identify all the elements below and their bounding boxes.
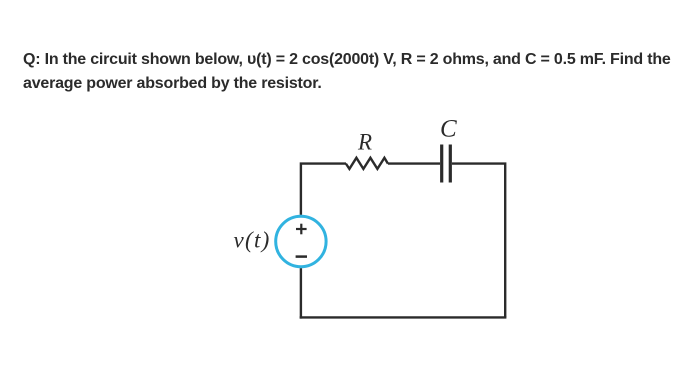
- svg-text:v(t): v(t): [234, 227, 271, 252]
- plus symbol: [296, 224, 307, 235]
- wire source bottom to bottom-left corner: [300, 268, 302, 319]
- voltage source V1 circle: [276, 216, 326, 266]
- bottom wire: [300, 316, 507, 318]
- question text line 2: [23, 75, 322, 93]
- question text line 1: [23, 51, 671, 69]
- wire top-left corner to resistor: [301, 164, 346, 215]
- wire resistor to capacitor: [388, 162, 440, 164]
- svg-text:C: C: [440, 115, 457, 142]
- capacitor C plates: [442, 145, 451, 183]
- svg-text:R: R: [357, 130, 372, 155]
- wire capacitor to top-right corner and down right side: [452, 164, 505, 318]
- resistor R: [346, 158, 388, 169]
- minus symbol: [296, 255, 307, 258]
